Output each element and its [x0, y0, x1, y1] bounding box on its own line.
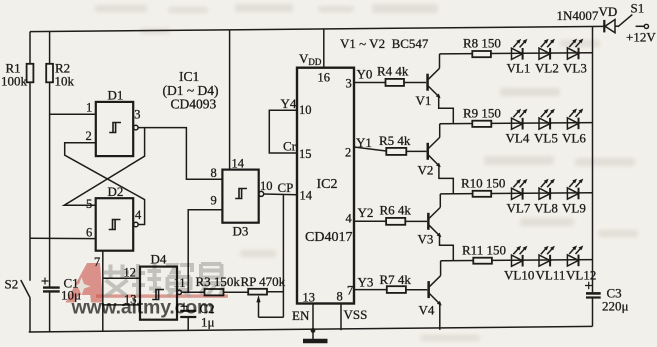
svg-text:VL6: VL6	[562, 131, 586, 146]
wire top VDD bus	[30, 26, 604, 31]
watermark char 3	[166, 265, 192, 297]
wire D3 pin14 to VDD bus	[229, 30, 231, 169]
svg-text:VD: VD	[599, 4, 618, 19]
LED VL6	[562, 109, 586, 146]
wire LED row 1	[440, 53, 593, 54]
capacitor C3	[585, 282, 629, 327]
svg-text:CP: CP	[278, 180, 294, 195]
svg-text:1N4007: 1N4007	[557, 8, 599, 23]
svg-text:R11 150: R11 150	[462, 243, 506, 258]
svg-text:Y0: Y0	[357, 67, 373, 82]
wire D1 pin2 to D2 output (cross coupling)	[65, 143, 145, 225]
wire Y3 row	[354, 275, 387, 290]
svg-text:10k: 10k	[55, 74, 75, 89]
svg-text:10: 10	[260, 179, 273, 193]
svg-text:EN: EN	[292, 308, 310, 323]
svg-text:15: 15	[299, 147, 312, 161]
wire LED row 4	[441, 260, 593, 261]
svg-text:R7 4k: R7 4k	[380, 272, 412, 287]
resistor R3	[196, 274, 241, 295]
label IC1 block	[163, 69, 219, 112]
resistor R6	[380, 203, 428, 225]
wire IC2 Y4 pin10 to Cr pin15	[269, 96, 297, 154]
svg-text:VL10: VL10	[504, 268, 534, 283]
svg-text:VL4: VL4	[506, 131, 530, 146]
svg-text:3: 3	[134, 108, 140, 122]
svg-text:6: 6	[86, 226, 92, 240]
svg-text:Y4: Y4	[281, 96, 297, 111]
diode VD 1N4007	[557, 4, 619, 33]
wire D4 output node to R3	[182, 291, 205, 293]
svg-text:VL3: VL3	[563, 61, 587, 76]
wire bottom ground bus	[29, 326, 593, 332]
svg-text:IC1: IC1	[179, 69, 199, 84]
svg-text:V1: V1	[416, 93, 432, 108]
svg-text:4: 4	[135, 208, 142, 222]
resistor R4	[377, 64, 426, 86]
watermark char 4	[199, 264, 225, 297]
wire D2 pin5 to D1 output (cross coupling)	[64, 128, 144, 206]
svg-text:9: 9	[211, 194, 217, 208]
svg-text:10: 10	[299, 103, 312, 117]
svg-text:2: 2	[345, 146, 351, 160]
svg-text:RP 470k: RP 470k	[241, 274, 286, 289]
wire Y0 row	[354, 67, 386, 83]
wire D2 pin6 to R1/R2 node	[30, 237, 96, 239]
LED VL4	[506, 109, 530, 146]
wire right bus	[592, 27, 594, 293]
svg-text:D3: D3	[233, 224, 249, 239]
wire R3 to RP	[224, 291, 249, 293]
LED VL5	[534, 109, 558, 146]
svg-text:100k: 100k	[1, 74, 28, 89]
svg-text:R4 4k: R4 4k	[377, 64, 409, 79]
wire IC2 pin8 VSS to ground bus	[341, 304, 367, 331]
switch S1	[618, 1, 657, 45]
wire Y1 row	[354, 135, 386, 151]
LED VL10	[504, 246, 534, 283]
svg-text:V2: V2	[418, 163, 434, 178]
svg-text:13: 13	[303, 291, 316, 305]
wire D3 pin9 to oscillator node	[188, 210, 222, 292]
resistor R11	[462, 243, 506, 264]
svg-text:V4: V4	[419, 303, 435, 318]
svg-text:8: 8	[337, 290, 343, 304]
wire IC2 VDD pin16 to top bus	[323, 29, 325, 68]
svg-text:R10 150: R10 150	[461, 176, 505, 191]
resistor R9	[463, 106, 501, 127]
LED VL3	[563, 39, 587, 76]
svg-text:VL2: VL2	[535, 61, 559, 76]
svg-text:VL1: VL1	[507, 61, 531, 76]
svg-text:2: 2	[86, 129, 92, 143]
wire D4 pin12	[103, 266, 140, 280]
ground symbol	[303, 331, 328, 341]
svg-text:5: 5	[86, 197, 92, 211]
svg-text:+12V: +12V	[626, 30, 656, 45]
svg-text:CD4017: CD4017	[305, 230, 352, 245]
resistor R1	[1, 32, 33, 281]
svg-text:R5 4k: R5 4k	[379, 133, 411, 148]
svg-text:S1: S1	[631, 1, 645, 16]
LED VL7	[507, 179, 531, 216]
svg-text:VSS: VSS	[344, 307, 368, 322]
watermark	[66, 263, 229, 319]
resistor R8	[463, 36, 501, 58]
svg-text:R9 150: R9 150	[463, 106, 501, 121]
svg-text:VL5: VL5	[534, 131, 558, 146]
watermark red letter A	[66, 263, 104, 303]
svg-text:R8 150: R8 150	[463, 36, 501, 51]
svg-text:V3: V3	[418, 232, 434, 247]
svg-text:14: 14	[300, 189, 313, 203]
transistor V1	[416, 54, 454, 124]
capacitor C2	[180, 301, 214, 331]
transistor V3	[418, 194, 454, 261]
switch S2	[5, 277, 31, 333]
transistor V2	[418, 124, 454, 194]
svg-text:VL7: VL7	[507, 201, 531, 216]
wire Y2 row	[354, 205, 386, 221]
svg-text:14: 14	[232, 157, 245, 171]
svg-text:Y1: Y1	[356, 135, 372, 150]
resistor R5	[379, 133, 426, 155]
resistor R10	[461, 176, 505, 197]
wire D3 output CP to IC2 pin14	[264, 180, 297, 195]
gate D2 (CD4093)	[86, 184, 142, 251]
LED VL1	[507, 39, 531, 76]
wire D1 pin3 output to D3 pin8	[138, 128, 222, 180]
IC2 CD4017	[297, 51, 354, 305]
svg-text:VL8: VL8	[534, 201, 558, 216]
watermark char 1	[104, 265, 129, 297]
svg-text:220μ: 220μ	[602, 299, 629, 314]
svg-text:www.aitmy.com: www.aitmy.com	[71, 297, 215, 319]
wire IC2 pin13 EN to ground	[292, 304, 315, 333]
svg-text:1: 1	[86, 101, 92, 115]
svg-text:D2: D2	[108, 184, 124, 199]
svg-text:IC2: IC2	[317, 177, 338, 192]
svg-text:4: 4	[346, 212, 353, 226]
svg-text:R6 4k: R6 4k	[380, 203, 412, 218]
capacitor C1	[42, 276, 82, 332]
resistor R2	[46, 32, 74, 288]
svg-text:CD4093: CD4093	[171, 97, 217, 112]
resistor R7	[380, 272, 428, 293]
wire D2 pin7 / D4 inputs vertical	[94, 251, 103, 332]
svg-text:D1: D1	[108, 88, 124, 103]
wire LED row 2	[440, 123, 593, 124]
gate D1 (CD4093)	[86, 88, 141, 157]
gate D4 (CD4093)	[140, 252, 186, 320]
LED VL11	[536, 246, 566, 283]
watermark red underline	[96, 294, 228, 297]
LED VL9	[562, 179, 586, 216]
svg-text:Cr: Cr	[283, 139, 297, 154]
svg-text:V1 ~ V2 BC547: V1 ~ V2 BC547	[340, 36, 429, 51]
LED VL12	[566, 246, 596, 283]
wire D1 pin1 from R2 line	[50, 113, 96, 115]
svg-text:VL11: VL11	[536, 268, 566, 283]
svg-text:S2: S2	[5, 277, 19, 292]
svg-text:7: 7	[347, 284, 353, 298]
wire LED row 3	[440, 193, 592, 194]
svg-text:3: 3	[346, 77, 352, 91]
transistor V4	[419, 261, 442, 330]
potentiometer RP	[241, 195, 286, 318]
LED VL8	[534, 179, 558, 216]
wire D4 pin13	[103, 293, 140, 307]
svg-text:8: 8	[211, 166, 217, 180]
svg-text:Y2: Y2	[358, 205, 374, 220]
watermark char 2	[132, 264, 161, 297]
svg-text:16: 16	[318, 71, 331, 85]
svg-text:Y3: Y3	[358, 275, 374, 290]
LED VL2	[535, 39, 559, 76]
gate D3 (CD4093)	[211, 157, 273, 239]
svg-text:VL9: VL9	[562, 201, 586, 216]
